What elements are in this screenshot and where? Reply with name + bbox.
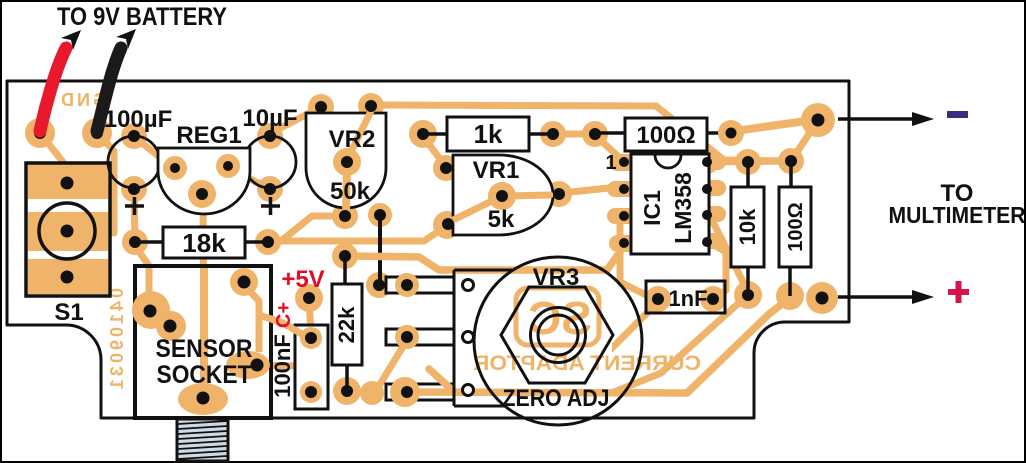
svg-text:100µF: 100µF — [104, 106, 173, 133]
svg-text:1k: 1k — [474, 119, 503, 149]
svg-text:SOCKET: SOCKET — [157, 361, 252, 389]
svg-text:LM358: LM358 — [670, 172, 696, 244]
svg-text:+5V: +5V — [281, 266, 324, 293]
svg-text:TO 9V BATTERY: TO 9V BATTERY — [57, 3, 227, 31]
svg-text:C+: C+ — [273, 302, 295, 328]
svg-text:100Ω: 100Ω — [785, 202, 807, 251]
svg-text:10k: 10k — [735, 208, 760, 245]
svg-text:04109031: 04109031 — [107, 288, 127, 392]
svg-text:100nF: 100nF — [270, 334, 295, 398]
svg-text:IC1: IC1 — [639, 190, 665, 226]
svg-text:SENSOR: SENSOR — [156, 335, 253, 363]
svg-text:REG1: REG1 — [176, 122, 241, 149]
svg-text:50k: 50k — [330, 178, 371, 205]
svg-text:10µF: 10µF — [242, 105, 297, 132]
svg-text:VR2: VR2 — [329, 126, 376, 153]
svg-text:S1: S1 — [54, 299, 83, 326]
svg-text:VR3: VR3 — [533, 264, 580, 291]
svg-text:22k: 22k — [334, 306, 359, 343]
svg-text:ZERO ADJ: ZERO ADJ — [503, 385, 610, 412]
svg-text:1nF: 1nF — [668, 286, 707, 311]
svg-text:1: 1 — [605, 152, 616, 174]
svg-text:100Ω: 100Ω — [636, 122, 695, 149]
svg-text:CURRENT ADAPTOR: CURRENT ADAPTOR — [473, 352, 701, 375]
svg-text:5k: 5k — [488, 206, 515, 233]
svg-text:VR1: VR1 — [473, 157, 520, 184]
svg-text:MULTIMETER: MULTIMETER — [889, 202, 1026, 228]
svg-text:18k: 18k — [182, 228, 226, 258]
